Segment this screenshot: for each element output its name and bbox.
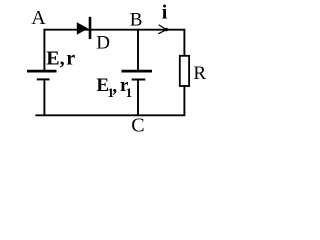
svg-text:B: B	[130, 10, 143, 31]
wire left vertical lower (battery E down to bottom wire)	[43, 79, 45, 115]
svg-text:E,: E,	[46, 47, 64, 69]
diode D (anode triangle)	[77, 22, 88, 35]
wire middle vertical lower (battery E1 down to node C)	[137, 80, 139, 116]
svg-text:1: 1	[126, 85, 133, 100]
wire right vertical lower (resistor R down to bottom wire)	[183, 87, 185, 116]
wire middle vertical upper (B down to battery E1)	[137, 29, 139, 70]
svg-text:R: R	[193, 63, 206, 84]
svg-text:D: D	[96, 33, 110, 54]
wire right vertical upper (corner down to resistor R)	[183, 29, 185, 56]
battery E1 short plate	[132, 79, 146, 81]
battery E1 long plate	[122, 70, 153, 73]
wire top (A to B to corner)	[44, 29, 186, 31]
wire bottom (left end to C to right corner)	[35, 114, 185, 116]
current arrow i (upper barb)	[159, 25, 167, 30]
svg-text:r: r	[66, 47, 75, 69]
resistor R body	[180, 56, 189, 86]
wire left vertical upper (A down to battery E)	[43, 29, 45, 70]
battery E long plate	[27, 70, 57, 73]
svg-text:,: ,	[112, 76, 117, 97]
current arrow i (vertex dot)	[165, 28, 168, 31]
svg-text:A: A	[31, 7, 46, 29]
svg-text:i: i	[162, 2, 168, 24]
svg-text:C: C	[131, 115, 144, 137]
current arrow i (lower barb)	[158, 30, 166, 34]
diode D (cathode bar)	[89, 17, 92, 39]
battery E short plate	[37, 78, 50, 80]
